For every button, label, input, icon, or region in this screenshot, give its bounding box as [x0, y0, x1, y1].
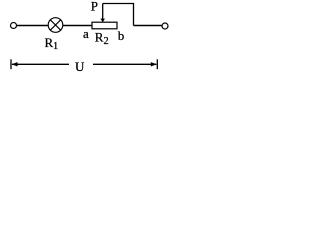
- wire: wiper up and over to right: [103, 4, 134, 26]
- wire: to right terminal: [134, 25, 162, 27]
- terminal T2 (right): [162, 23, 168, 29]
- svg-text:U: U: [75, 59, 85, 74]
- terminal T1 (left): [11, 23, 17, 29]
- wire: left terminal to lamp: [17, 25, 49, 27]
- lamp R1 (circle with X): [48, 18, 63, 33]
- svg-text:a: a: [83, 26, 89, 41]
- dimension arrow (left): [12, 62, 18, 66]
- svg-text:b: b: [118, 28, 125, 43]
- dimension arrow (right): [151, 62, 157, 66]
- svg-text:P: P: [91, 0, 98, 14]
- wire: lamp to resistor R2: [63, 25, 93, 27]
- wiper arrow P: [100, 4, 105, 23]
- dimension bar (right): [156, 59, 158, 69]
- dimension line U (left segment): [12, 63, 69, 65]
- resistor R2 body (potentiometer element): [92, 22, 117, 29]
- dimension line U (right segment): [93, 63, 156, 65]
- dimension bar (left): [10, 59, 12, 69]
- svg-text:R2: R2: [95, 29, 109, 47]
- svg-text:R1: R1: [45, 35, 59, 52]
